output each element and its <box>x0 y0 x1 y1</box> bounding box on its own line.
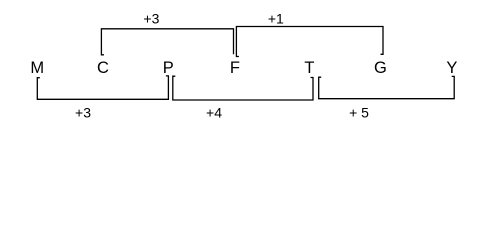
svg-text:+3: +3 <box>75 104 91 120</box>
svg-text:+1: +1 <box>268 11 284 27</box>
bracket P-T (bottom, +4) <box>173 76 313 100</box>
svg-text:P: P <box>163 59 174 77</box>
svg-text:T: T <box>304 59 314 77</box>
svg-text:C: C <box>97 59 109 77</box>
svg-text:F: F <box>230 59 240 77</box>
svg-text:+ 5: + 5 <box>349 104 369 120</box>
svg-text:M: M <box>30 59 44 77</box>
bracket M-P (bottom, +3) <box>37 76 168 99</box>
bracket T-Y (bottom, +5) <box>319 76 455 98</box>
svg-text:+3: +3 <box>143 11 159 27</box>
bracket F-G (top, +1) <box>236 27 383 57</box>
bracket C-F (top, +3) <box>101 29 233 55</box>
svg-text:+4: +4 <box>206 104 222 120</box>
svg-text:G: G <box>374 59 387 77</box>
svg-text:Y: Y <box>446 59 457 77</box>
